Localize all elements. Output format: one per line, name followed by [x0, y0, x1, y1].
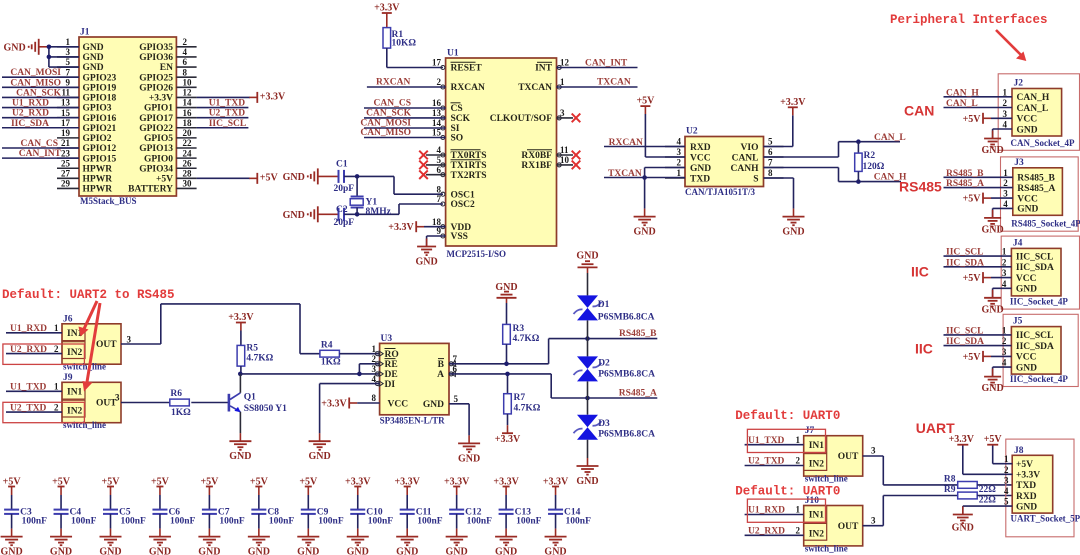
svg-text:GPIO34: GPIO34: [139, 164, 173, 174]
label IIC: [915, 341, 933, 357]
wire net IIC_SDA to J4 pin 2: [944, 258, 1012, 268]
svg-text:R4: R4: [321, 341, 333, 351]
svg-text:TXD: TXD: [690, 174, 710, 184]
svg-text:Default: UART0: Default: UART0: [735, 484, 840, 498]
svg-text:VCC: VCC: [690, 153, 711, 163]
svg-text:12: 12: [183, 88, 193, 98]
svg-text:GND: GND: [1016, 363, 1037, 373]
svg-text:8MHz: 8MHz: [366, 207, 392, 217]
svg-text:17: 17: [61, 118, 71, 128]
svg-text:J6: J6: [63, 314, 73, 324]
svg-text:TX2RTS: TX2RTS: [451, 171, 487, 181]
svg-text:+3.3V: +3.3V: [388, 222, 414, 233]
svg-text:+3.3V: +3.3V: [495, 434, 521, 445]
svg-text:GND: GND: [283, 210, 305, 221]
svg-text:D3: D3: [598, 419, 610, 429]
ground at C2: [283, 206, 339, 222]
svg-text:100nF: 100nF: [121, 516, 147, 526]
svg-text:+3.3V: +3.3V: [1016, 471, 1040, 481]
svg-text:GND: GND: [576, 251, 598, 262]
svg-text:IIC_SDA: IIC_SDA: [946, 337, 984, 347]
svg-text:1: 1: [1002, 325, 1007, 335]
svg-text:4: 4: [1002, 279, 1007, 289]
svg-text:3: 3: [1003, 109, 1008, 119]
capacitor C6 100nF: [151, 477, 195, 537]
svg-text:RS485_Socket_4P: RS485_Socket_4P: [1011, 219, 1080, 229]
svg-text:CAN/TJA1051T/3: CAN/TJA1051T/3: [685, 187, 756, 197]
power +3.3V at R1: [374, 3, 400, 28]
svg-text:Default: UART2 to RS485: Default: UART2 to RS485: [2, 288, 175, 302]
wire net CAN_L from U2 CANL: [764, 133, 906, 157]
svg-text:R8: R8: [944, 475, 956, 485]
power +5V at J5 pin 3: [963, 351, 1012, 363]
svg-text:100nF: 100nF: [318, 516, 344, 526]
ground at C4: [50, 537, 72, 555]
svg-text:J8: J8: [1014, 446, 1024, 456]
svg-text:TXD: TXD: [1016, 481, 1036, 491]
capacitor C1 20pF: [334, 160, 355, 194]
svg-text:100nF: 100nF: [417, 516, 443, 526]
svg-text:GPIO21: GPIO21: [83, 124, 117, 134]
svg-text:U1_RXD: U1_RXD: [748, 506, 785, 516]
svg-text:+5V: +5V: [156, 175, 173, 185]
ground at C9: [297, 537, 319, 555]
label IIC: [911, 264, 929, 280]
svg-text:6: 6: [183, 57, 188, 67]
ground below D3: [576, 458, 598, 487]
svg-text:23: 23: [61, 148, 71, 158]
svg-text:GPIO19: GPIO19: [83, 83, 117, 93]
svg-text:GND: GND: [83, 53, 104, 63]
svg-text:5: 5: [66, 57, 71, 67]
ground at C1: [283, 168, 339, 184]
svg-text:100nF: 100nF: [516, 516, 542, 526]
svg-text:19: 19: [61, 128, 71, 138]
svg-text:SCK: SCK: [451, 114, 471, 124]
wire R1 to U1 RESET: [387, 48, 443, 67]
wire net IIC_SCL to J4 pin 1: [944, 248, 1012, 258]
svg-text:4: 4: [1004, 486, 1009, 496]
svg-text:P6SMB6.8CA: P6SMB6.8CA: [598, 312, 655, 322]
svg-text:21: 21: [61, 138, 71, 148]
annotation Default UART2 to RS485: [2, 288, 175, 302]
svg-text:SS8050 Y1: SS8050 Y1: [244, 404, 287, 414]
svg-text:10KΩ: 10KΩ: [392, 39, 417, 49]
svg-text:120Ω: 120Ω: [863, 162, 885, 172]
ground symbol at J1 pins 1/3/5: [3, 39, 48, 55]
svg-text:GND: GND: [283, 172, 305, 183]
svg-text:GND: GND: [1016, 502, 1037, 512]
capacitor C2 20pF: [334, 205, 355, 228]
svg-text:CAN_Socket_4P: CAN_Socket_4P: [1011, 138, 1075, 148]
annotation Peripheral Interfaces: [890, 13, 1048, 27]
wire Q1 node to U3 RE DE: [240, 364, 379, 376]
svg-text:IIC_SDA: IIC_SDA: [946, 258, 984, 268]
svg-text:14: 14: [183, 98, 193, 108]
wire net U1_RXD to J6 IN1: [6, 323, 62, 334]
power +5V at J8 pin 1: [984, 434, 1012, 464]
svg-text:28: 28: [183, 169, 193, 179]
ground at C6: [149, 537, 171, 555]
resistor R5 4.7K: [237, 344, 274, 367]
svg-text:RS485_B: RS485_B: [1017, 174, 1055, 184]
svg-text:CLKOUT/SOF: CLKOUT/SOF: [490, 114, 552, 124]
svg-text:IIC_SCL: IIC_SCL: [946, 248, 984, 258]
svg-text:RS485_B: RS485_B: [619, 329, 657, 339]
svg-text:2: 2: [54, 344, 59, 354]
wire J10 OUT to R9: [863, 496, 958, 526]
svg-text:GPIO25: GPIO25: [139, 73, 173, 83]
capacitor C4 100nF: [52, 477, 96, 537]
wire net U2_RXD to J6 IN2: [6, 344, 62, 355]
svg-text:GND: GND: [83, 63, 104, 73]
svg-text:GND: GND: [495, 547, 517, 555]
svg-text:U1_TXD: U1_TXD: [748, 436, 785, 446]
svg-text:3: 3: [1003, 189, 1008, 199]
svg-text:CAN_MISO: CAN_MISO: [10, 78, 61, 88]
svg-text:IIC: IIC: [915, 341, 933, 357]
resistor R7 4.7K: [504, 374, 541, 414]
capacitor C9 100nF: [299, 477, 343, 537]
svg-text:RXCAN: RXCAN: [451, 83, 485, 93]
svg-text:GPIO36: GPIO36: [139, 53, 173, 63]
ground at U2 S pin 8: [764, 178, 805, 238]
connector J5 IIC_Socket_4P outer box: [1003, 314, 1078, 386]
wire net U1_TXD to J9 IN1: [6, 382, 62, 393]
svg-text:30: 30: [183, 179, 193, 189]
transceiver U3 SP3485 body: [372, 334, 459, 425]
svg-text:GPIO2: GPIO2: [83, 134, 112, 144]
wire net CAN_SCK to J1 pin 11: [2, 88, 79, 98]
svg-text:IN2: IN2: [67, 406, 83, 416]
svg-text:26: 26: [183, 158, 193, 168]
svg-text:+3.3V: +3.3V: [321, 399, 347, 410]
svg-text:U2_RXD: U2_RXD: [10, 345, 47, 355]
svg-text:R2: R2: [864, 151, 876, 161]
capacitor C14 100nF: [543, 477, 591, 537]
svg-text:OUT: OUT: [838, 522, 859, 532]
svg-text:+3.3V: +3.3V: [260, 91, 286, 102]
svg-text:GND: GND: [0, 547, 22, 555]
svg-text:CAN_SCK: CAN_SCK: [366, 108, 411, 118]
capacitor C12 100nF: [444, 477, 492, 537]
capacitor C13 100nF: [493, 477, 541, 537]
connector J8 UART_Socket_5P body: [995, 439, 1080, 537]
svg-text:GND: GND: [149, 547, 171, 555]
svg-text:13: 13: [61, 98, 71, 108]
power +3.3V at J1 pin 12: [197, 91, 286, 103]
ground at C7: [198, 537, 220, 555]
power +3.3V at R5: [228, 312, 254, 345]
svg-text:7: 7: [66, 67, 71, 77]
svg-text:U2_TXD: U2_TXD: [748, 457, 785, 467]
svg-text:3: 3: [871, 515, 876, 525]
svg-text:18: 18: [183, 118, 193, 128]
svg-text:GPIO13: GPIO13: [139, 144, 173, 154]
power +3.3V at U1 VDD: [388, 221, 445, 233]
svg-text:U1: U1: [447, 49, 459, 59]
wire net RXCAN to U2 RXD: [604, 138, 685, 148]
svg-text:RXCAN: RXCAN: [609, 138, 643, 148]
svg-text:U1_RXD: U1_RXD: [12, 99, 49, 109]
svg-text:GPIO22: GPIO22: [139, 124, 173, 134]
svg-text:RESET: RESET: [451, 64, 483, 74]
svg-text:22Ω: 22Ω: [979, 496, 997, 506]
svg-text:5: 5: [768, 137, 773, 147]
wire R5 to Q1 collector node: [238, 366, 243, 376]
svg-text:GND: GND: [1017, 125, 1038, 135]
svg-text:11: 11: [61, 88, 70, 98]
svg-text:RS485: RS485: [899, 179, 942, 195]
svg-text:GND: GND: [83, 43, 104, 53]
svg-text:GND: GND: [633, 227, 655, 238]
svg-text:14: 14: [432, 118, 442, 128]
highlight box on J10 IN1 default: [747, 499, 825, 522]
wire net U2_RXD to J10 IN2: [745, 526, 804, 537]
svg-text:3: 3: [66, 47, 71, 57]
transistor Q1 SS8050: [229, 374, 287, 414]
ground at C10: [347, 537, 369, 555]
svg-text:SO: SO: [451, 134, 464, 144]
power +3.3V at J8 pin 2: [949, 434, 1013, 474]
connector J4 IIC_Socket_4P outer box: [1001, 236, 1079, 309]
svg-text:10: 10: [560, 155, 570, 165]
svg-text:3: 3: [677, 147, 682, 157]
svg-text:P6SMB6.8CA: P6SMB6.8CA: [598, 370, 655, 380]
svg-text:GND: GND: [981, 224, 1003, 235]
svg-text:CAN_CS: CAN_CS: [374, 99, 411, 109]
svg-text:15: 15: [432, 128, 442, 138]
svg-text:100nF: 100nF: [269, 516, 295, 526]
svg-text:2: 2: [1003, 98, 1008, 108]
resistor R6 1K: [170, 389, 229, 418]
ground at U3 DI: [308, 384, 379, 463]
connector J4 IIC_Socket_4P body: [1002, 238, 1069, 306]
wire net U1_RXD to J10 IN1: [745, 505, 804, 516]
wire net CAN_MISO to U1: [360, 128, 445, 138]
svg-text:U2: U2: [686, 127, 698, 137]
svg-text:D1: D1: [598, 300, 610, 310]
wire net U1_TXD to J7 IN1: [745, 435, 804, 446]
svg-text:Default: UART0: Default: UART0: [735, 409, 840, 423]
power +3.3V at U2 VIO: [764, 97, 807, 147]
svg-text:Q1: Q1: [244, 393, 256, 403]
svg-text:RX1BF: RX1BF: [521, 161, 552, 171]
svg-text:GND: GND: [446, 547, 468, 555]
svg-text:+3.3V: +3.3V: [149, 94, 173, 104]
annotation Default UART0 upper: [735, 409, 840, 423]
svg-text:TXCAN: TXCAN: [518, 83, 552, 93]
svg-text:J5: J5: [1013, 317, 1023, 327]
svg-text:IN2: IN2: [67, 348, 83, 358]
svg-text:3: 3: [1002, 347, 1007, 357]
svg-text:RE: RE: [385, 360, 398, 370]
svg-text:17: 17: [432, 58, 442, 68]
wire net CAN_MOSI to J1 pin 7: [2, 68, 79, 78]
power +3.3V at U3 VCC: [321, 398, 379, 410]
ground at U2 GND pin 2: [633, 168, 685, 238]
svg-text:GND: GND: [3, 42, 25, 53]
svg-text:13: 13: [432, 108, 442, 118]
svg-text:GND: GND: [198, 547, 220, 555]
svg-text:GPIO16: GPIO16: [83, 114, 117, 124]
svg-text:U1_RXD: U1_RXD: [10, 324, 47, 334]
svg-text:1: 1: [66, 37, 71, 47]
wire net CAN_INT from U1 pin 12: [557, 58, 638, 68]
wire C2 to OSC2: [344, 204, 443, 217]
wire net U1_TXD at J1 pin 14: [197, 99, 249, 109]
svg-text:100nF: 100nF: [22, 516, 48, 526]
svg-text:IIC_SDA: IIC_SDA: [1016, 342, 1054, 352]
svg-text:GPIO5: GPIO5: [144, 134, 173, 144]
svg-text:CAN_H: CAN_H: [1017, 93, 1050, 103]
switch J9 switch_line body: [62, 373, 121, 430]
svg-text:GND: GND: [458, 453, 480, 464]
svg-text:GPIO26: GPIO26: [139, 83, 173, 93]
highlight box on J6 IN2 default: [3, 344, 85, 364]
svg-text:+5V: +5V: [636, 96, 655, 107]
svg-text:HPWR: HPWR: [83, 164, 113, 174]
svg-text:IN1: IN1: [809, 441, 825, 451]
svg-text:IIC_SCL: IIC_SCL: [209, 119, 247, 129]
annotation arrow to J6: [79, 301, 98, 337]
svg-text:IIC: IIC: [911, 264, 929, 280]
svg-text:VCC: VCC: [388, 399, 409, 409]
wire net CAN_CS to J1 pin 21: [2, 139, 79, 149]
svg-text:BATTERY: BATTERY: [128, 185, 173, 195]
svg-text:RXD: RXD: [690, 143, 711, 153]
svg-text:GND: GND: [423, 400, 444, 410]
svg-text:1KΩ: 1KΩ: [321, 357, 341, 367]
svg-text:GND: GND: [576, 476, 598, 487]
svg-text:5: 5: [1004, 497, 1009, 507]
svg-text:OUT: OUT: [838, 452, 859, 462]
svg-text:22Ω: 22Ω: [979, 485, 997, 495]
svg-text:R7: R7: [514, 393, 526, 403]
power +5V at J4 pin 3: [963, 272, 1012, 284]
svg-text:U2_RXD: U2_RXD: [748, 527, 785, 537]
wire J9 OUT to R6: [115, 393, 170, 403]
svg-text:RS485_B: RS485_B: [946, 169, 984, 179]
svg-text:IN1: IN1: [809, 511, 825, 521]
ground at J5 pin 4: [981, 367, 1011, 394]
svg-text:4.7KΩ: 4.7KΩ: [513, 334, 540, 344]
wire J7 OUT to R8: [863, 445, 958, 485]
svg-text:U2_TXD: U2_TXD: [10, 403, 47, 413]
highlight box on J9 IN2 default: [3, 402, 85, 422]
svg-text:100nF: 100nF: [368, 516, 394, 526]
op-amp U1 MCP2515 body: [446, 49, 557, 260]
svg-text:GPIO18: GPIO18: [83, 94, 117, 104]
svg-text:CAN: CAN: [904, 103, 934, 119]
annotation Default UART0 lower: [735, 484, 840, 498]
svg-text:GPIO1: GPIO1: [144, 104, 173, 114]
wire net TXCAN to U2 TXD: [604, 169, 685, 180]
svg-text:R9: R9: [944, 485, 956, 495]
svg-text:RXD: RXD: [1016, 492, 1037, 502]
svg-text:J1: J1: [80, 28, 90, 38]
highlight box on J7 IN1 default: [747, 429, 825, 452]
capacitor C7 100nF: [200, 477, 244, 537]
svg-text:2: 2: [677, 158, 682, 168]
svg-text:+3.3V: +3.3V: [949, 434, 975, 445]
svg-text:RS485_A: RS485_A: [619, 389, 657, 399]
power +5V at J2 pin 3: [963, 113, 1012, 125]
svg-text:J7: J7: [805, 426, 815, 436]
svg-text:J4: J4: [1013, 238, 1023, 248]
svg-text:SI: SI: [451, 124, 460, 134]
svg-text:switch_line: switch_line: [805, 474, 848, 484]
svg-text:TXCAN: TXCAN: [608, 169, 642, 179]
wire net RS485_B from U3 B: [449, 329, 657, 366]
svg-text:INT: INT: [535, 64, 553, 74]
svg-text:3: 3: [871, 445, 876, 455]
capacitor C11 100nF: [394, 477, 442, 537]
svg-text:S: S: [753, 174, 758, 184]
svg-text:VCC: VCC: [1016, 353, 1037, 363]
svg-text:SP3485EN-L/TR: SP3485EN-L/TR: [380, 415, 446, 425]
svg-text:IIC_SDA: IIC_SDA: [11, 119, 49, 129]
svg-text:CAN_INT: CAN_INT: [585, 58, 628, 68]
svg-text:J9: J9: [63, 373, 73, 383]
svg-text:CS: CS: [451, 104, 463, 114]
wire J6 OUT to R4: [121, 304, 320, 354]
svg-text:15: 15: [61, 108, 71, 118]
svg-text:GND: GND: [952, 523, 974, 534]
svg-text:2: 2: [1004, 465, 1009, 475]
capacitor C3 100nF: [3, 477, 47, 537]
svg-text:1: 1: [1003, 168, 1008, 178]
power +3.3V below R7: [495, 414, 521, 445]
svg-text:2: 2: [1002, 336, 1007, 346]
svg-text:1: 1: [54, 382, 59, 392]
svg-text:HPWR: HPWR: [83, 175, 113, 185]
svg-text:GND: GND: [981, 304, 1003, 315]
svg-text:2: 2: [1002, 257, 1007, 267]
resistor R9 22 ohm: [944, 485, 1012, 506]
svg-text:8: 8: [372, 393, 377, 403]
ground at J3 pin 4: [981, 208, 1012, 235]
svg-text:IN2: IN2: [809, 530, 825, 540]
svg-text:16: 16: [183, 108, 193, 118]
svg-text:GND: GND: [1016, 285, 1037, 295]
svg-text:GPIO35: GPIO35: [139, 43, 173, 53]
svg-text:10: 10: [183, 77, 193, 87]
svg-text:2: 2: [54, 402, 59, 412]
switch J6 switch_line body: [62, 314, 121, 371]
svg-text:P6SMB6.8CA: P6SMB6.8CA: [598, 430, 655, 440]
wire net CAN_MOSI to U1: [360, 119, 445, 129]
svg-text:A: A: [437, 370, 444, 380]
svg-text:1: 1: [54, 323, 59, 333]
resistor R1 10K: [383, 28, 416, 49]
svg-text:1: 1: [1002, 247, 1007, 257]
capacitor C5 100nF: [102, 477, 146, 537]
svg-text:GND: GND: [248, 547, 270, 555]
svg-text:R6: R6: [170, 389, 182, 399]
wire C1 to OSC1: [344, 174, 443, 194]
wire net RXCAN to U1 pin 2: [367, 77, 446, 87]
svg-text:GND: GND: [544, 547, 566, 555]
ground at J4 pin 4: [981, 288, 1011, 315]
svg-text:16: 16: [432, 98, 442, 108]
svg-text:+3.3V: +3.3V: [374, 3, 400, 14]
svg-text:CANL: CANL: [732, 153, 759, 163]
ground at J8 pin 5: [952, 506, 1013, 533]
svg-text:U2_RXD: U2_RXD: [12, 109, 49, 119]
svg-text:IN2: IN2: [809, 460, 825, 470]
capacitor C10 100nF: [345, 477, 393, 537]
